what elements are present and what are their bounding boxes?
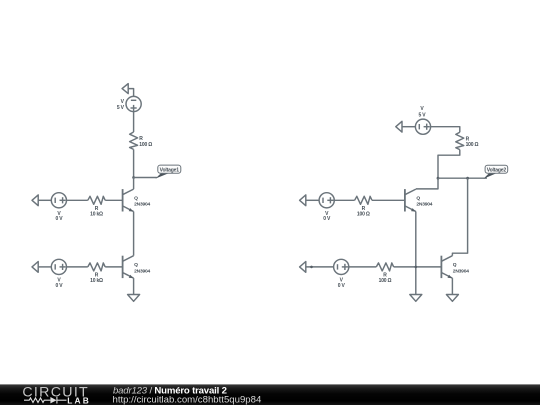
transistor Q1 2N3904 [123, 189, 134, 212]
label Q1 [134, 195, 150, 207]
svg-text:0 V: 0 V [338, 283, 346, 289]
ground (below Q4) [446, 295, 458, 302]
junction dot near ground (right bottom) [310, 266, 313, 269]
footer bar [0, 384, 540, 405]
svg-text:5 V: 5 V [418, 112, 426, 118]
wire (node A to flag Voltage1) [134, 177, 157, 179]
label Q3 [416, 195, 432, 207]
voltage source V1 5 V (vertical, minus top) [126, 96, 141, 111]
net flag Voltage1 [155, 165, 180, 179]
label Q4 [453, 262, 469, 274]
ground (left row 1) [32, 195, 38, 206]
label R3 [90, 273, 103, 284]
node B junction [437, 177, 440, 180]
label R1 [139, 136, 152, 148]
svg-text:100 Ω: 100 Ω [357, 212, 370, 218]
svg-text:0 V: 0 V [55, 283, 63, 289]
wire (node A down to Q1 collector) [133, 178, 135, 190]
svg-text:2N3904: 2N3904 [134, 268, 150, 274]
wire (Q2 emitter to ground) [133, 278, 135, 294]
ground (rotated left, at top of V1) [122, 84, 128, 94]
wire (R3 to Q2 base) [105, 266, 122, 268]
ground (below Q2) [128, 295, 140, 302]
wire (V1 to R1) [133, 112, 135, 132]
wire (ground to V2) [38, 199, 51, 201]
svg-text:2N3904: 2N3904 [134, 202, 150, 208]
svg-text:R: R [139, 136, 143, 142]
svg-text:Q: Q [134, 195, 138, 201]
wire (Q4 collector riser to node C) [452, 178, 467, 256]
wire (ground to V5) [306, 199, 319, 201]
label V3 [418, 106, 426, 118]
svg-text:2N3904: 2N3904 [416, 202, 432, 208]
svg-text:10 kΩ: 10 kΩ [90, 212, 103, 218]
ground (right top, left of V3) [396, 121, 402, 132]
logo squiggle (resistor + diode) [24, 397, 67, 404]
svg-text:100 Ω: 100 Ω [466, 142, 479, 148]
label R6 [379, 273, 392, 284]
wire (Q3 collector to node B) [416, 178, 438, 189]
transistor Q4 2N3904 [441, 256, 452, 279]
label Q2 [134, 262, 150, 274]
net flag Voltage2 [484, 165, 508, 179]
svg-text:10 kΩ: 10 kΩ [90, 278, 103, 284]
svg-text:0 V: 0 V [55, 216, 63, 222]
resistor R2 10 kOhm (horizontal) [88, 196, 105, 204]
node A junction [132, 176, 135, 179]
label V2 [55, 211, 63, 222]
wire (R4 to Q3 base) [372, 199, 405, 201]
wire (Q4 emitter to ground) [451, 278, 453, 294]
svg-text:100 Ω: 100 Ω [139, 142, 152, 148]
label V5 [323, 211, 331, 222]
wire (R1 to node A) [133, 149, 135, 177]
transistor Q3 2N3904 [405, 189, 416, 212]
voltage source V2 0 V (horizontal, minus left) [51, 193, 66, 208]
svg-text:Q: Q [453, 262, 457, 268]
svg-text:Voltage2: Voltage2 [487, 167, 507, 173]
wire (node B to flag Voltage2) [438, 177, 487, 179]
junction dot (emitter rail crossing) [415, 266, 418, 269]
wire (Q3 emitter rail down to ground) [415, 212, 417, 295]
voltage source V5 0 V (horizontal, minus left) [319, 193, 334, 208]
wire (V3 to R5 top) [431, 127, 460, 133]
transistor Q2 2N3904 [123, 256, 134, 279]
resistor R4 100 Ohm (horizontal) [355, 196, 372, 204]
svg-text:Voltage1: Voltage1 [160, 167, 180, 173]
wire (Q1 emitter rail down to Q2 collector) [133, 212, 135, 256]
resistor R1 100 Ohm (vertical) [130, 132, 138, 149]
label V1 [117, 99, 125, 111]
ground (below Q3 emitter rail) [410, 295, 422, 302]
wire (V2 to R2) [67, 199, 88, 201]
voltage source V4 0 V (horizontal, minus left) [51, 259, 66, 274]
label V6 [338, 278, 346, 289]
ground (right bottom row) [300, 262, 306, 273]
label R5 [466, 136, 479, 148]
resistor R3 10 kOhm (horizontal) [88, 263, 105, 271]
svg-text:http://circuitlab.com/c8hbtt5q: http://circuitlab.com/c8hbtt5qu9p84 [113, 394, 262, 405]
wire (R5 to node B, with step) [438, 150, 460, 179]
svg-text:Q: Q [416, 195, 420, 201]
svg-text:LAB: LAB [67, 395, 91, 405]
svg-text:0 V: 0 V [323, 216, 331, 222]
ground (left row 2) [32, 262, 38, 273]
wire (V5 to R4) [334, 199, 354, 201]
svg-text:Q: Q [134, 262, 138, 268]
wire (V4 to R3) [67, 266, 88, 268]
ground (right middle row) [300, 195, 306, 206]
svg-text:2N3904: 2N3904 [453, 268, 469, 274]
voltage source V3 5 V (horizontal, minus left) [415, 119, 430, 134]
wire (R2 to Q1 base) [105, 199, 122, 201]
voltage source V6 0 V (horizontal, minus left) [334, 259, 349, 274]
label R2 [90, 206, 103, 217]
wire (ground to V3) [402, 126, 415, 128]
wire (ground to V6) [306, 266, 334, 268]
label R4 [357, 206, 370, 217]
svg-text:5 V: 5 V [117, 105, 125, 111]
wire (V6 to R6) [349, 266, 377, 268]
resistor R5 100 Ohm (vertical) [456, 132, 464, 149]
wire (ground to V1 top) [128, 89, 133, 97]
resistor R6 100 Ohm (horizontal) [376, 263, 393, 271]
label V4 [55, 278, 63, 289]
wire (R6 to Q4 base, crossing emitter rail) [394, 266, 442, 268]
svg-text:100 Ω: 100 Ω [379, 278, 392, 284]
node C junction [466, 177, 469, 180]
wire (ground to V4) [38, 266, 51, 268]
